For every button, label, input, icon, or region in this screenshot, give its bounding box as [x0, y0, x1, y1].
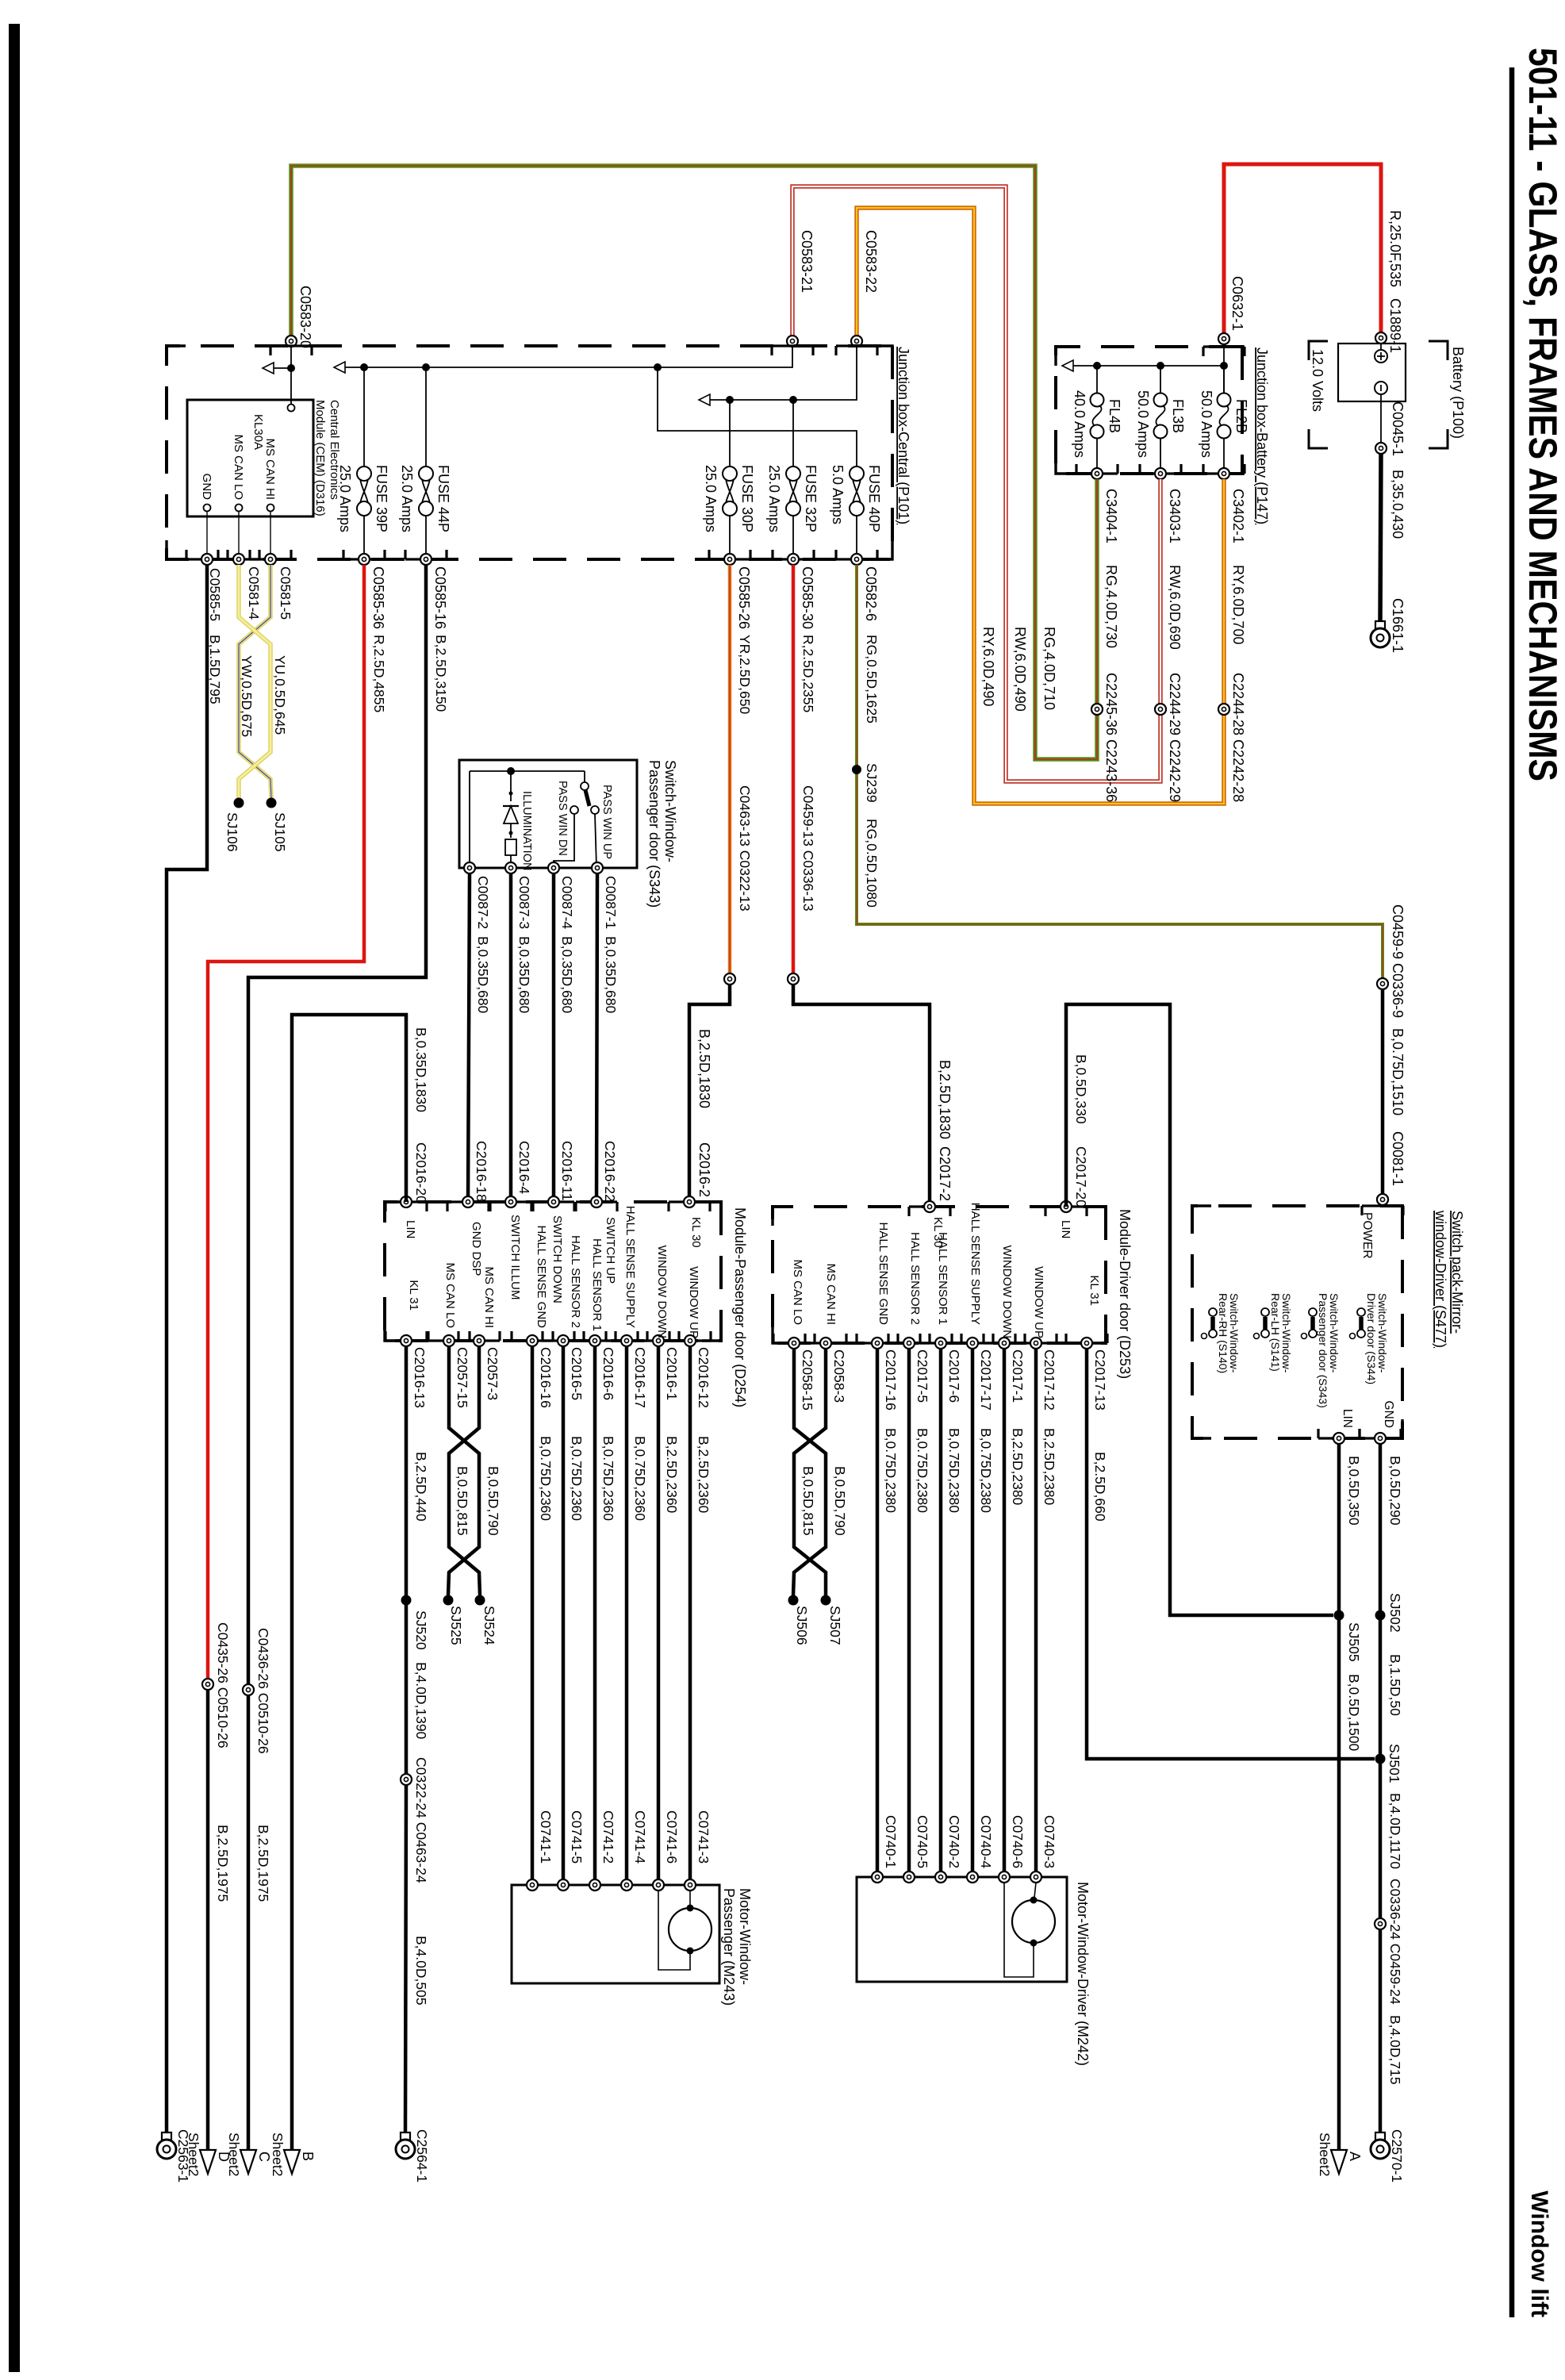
svg-text:501-11 - GLASS, FRAMES AND MEC: 501-11 - GLASS, FRAMES AND MECHANISMS — [1521, 48, 1565, 781]
svg-text:C2016-12: C2016-12 — [696, 1347, 712, 1408]
svg-text:B,2.5D,2380: B,2.5D,2380 — [1041, 1428, 1057, 1506]
svg-text:50.0 Amps: 50.0 Amps — [1135, 390, 1151, 458]
svg-text:C2017-5: C2017-5 — [915, 1349, 930, 1403]
svg-text:WINDOW UP: WINDOW UP — [687, 1266, 700, 1338]
svg-text:C0740-6: C0740-6 — [1010, 1815, 1026, 1868]
svg-text:B,2.5D,660: B,2.5D,660 — [1092, 1452, 1108, 1522]
svg-text:SJ105: SJ105 — [272, 812, 288, 852]
svg-text:C2017-16: C2017-16 — [883, 1349, 899, 1411]
svg-text:FL2B: FL2B — [1233, 399, 1249, 433]
svg-text:C2058-3: C2058-3 — [831, 1349, 847, 1403]
svg-text:C1889-1: C1889-1 — [1387, 298, 1403, 353]
svg-text:C2570-1: C2570-1 — [1389, 2129, 1405, 2182]
svg-text:RW,6.0D,490: RW,6.0D,490 — [1012, 627, 1028, 712]
svg-text:C2016-1: C2016-1 — [664, 1347, 680, 1400]
svg-text:C0463-13 C0322-13: C0463-13 C0322-13 — [737, 785, 753, 912]
svg-text:Rear-RH (S140): Rear-RH (S140) — [1217, 1293, 1229, 1373]
svg-text:FUSE 30P: FUSE 30P — [739, 465, 755, 532]
svg-text:C0045-1: C0045-1 — [1390, 401, 1406, 456]
svg-text:C0740-3: C0740-3 — [1041, 1815, 1057, 1868]
svg-text:GND: GND — [200, 474, 213, 501]
svg-text:PASS WIN DN: PASS WIN DN — [556, 781, 569, 856]
svg-text:C0741-5: C0741-5 — [569, 1810, 585, 1864]
svg-text:RY,6.0D,490: RY,6.0D,490 — [980, 627, 996, 706]
svg-text:Switch-Window-: Switch-Window- — [1228, 1293, 1241, 1373]
svg-text:SJ501: SJ501 — [1387, 1744, 1402, 1783]
svg-text:SJ524: SJ524 — [481, 1606, 497, 1645]
svg-text:B,0.35D,680: B,0.35D,680 — [559, 936, 575, 1014]
svg-text:HALL SENSE GND: HALL SENSE GND — [876, 1223, 890, 1326]
svg-text:C2016-2: C2016-2 — [696, 1142, 712, 1197]
svg-text:SJ505: SJ505 — [1346, 1622, 1362, 1662]
svg-text:RW,6.0D,690: RW,6.0D,690 — [1167, 565, 1183, 650]
svg-text:C3402-1: C3402-1 — [1230, 489, 1246, 543]
svg-text:B,0.35D,1830: B,0.35D,1830 — [413, 1027, 429, 1112]
svg-text:Switch-Window-: Switch-Window- — [1280, 1293, 1293, 1373]
svg-text:Sheet2: Sheet2 — [270, 2132, 286, 2176]
svg-text:C2017-6: C2017-6 — [946, 1349, 962, 1403]
svg-text:B,2.5D,2360: B,2.5D,2360 — [696, 1436, 712, 1514]
svg-text:C2016-17: C2016-17 — [632, 1347, 648, 1408]
svg-text:C2016-11: C2016-11 — [559, 1141, 575, 1201]
svg-text:RG,4.0D,710: RG,4.0D,710 — [1041, 627, 1057, 710]
svg-text:C3404-1: C3404-1 — [1103, 489, 1119, 543]
svg-text:R,25.0F,535: R,25.0F,535 — [1387, 210, 1403, 287]
svg-text:RG,0.5D,1625: RG,0.5D,1625 — [864, 635, 880, 724]
svg-text:B,0.5D,350: B,0.5D,350 — [1346, 1456, 1362, 1526]
svg-text:B,0.35D,680: B,0.35D,680 — [516, 936, 532, 1014]
svg-text:Passenger (M243): Passenger (M243) — [721, 1888, 737, 2006]
svg-text:WINDOW UP: WINDOW UP — [1032, 1266, 1045, 1338]
svg-text:Junction box-Central (P101): Junction box-Central (P101) — [896, 347, 911, 524]
svg-text:B,0.35D,680: B,0.35D,680 — [603, 936, 619, 1014]
svg-text:5.0 Amps: 5.0 Amps — [830, 465, 846, 524]
svg-text:B,2.5D,1975: B,2.5D,1975 — [215, 1825, 231, 1902]
svg-text:C0087-3: C0087-3 — [516, 876, 532, 929]
svg-text:B,0.5D,1500: B,0.5D,1500 — [1346, 1674, 1362, 1752]
svg-text:Module-Passenger door (D254): Module-Passenger door (D254) — [732, 1207, 748, 1407]
svg-text:C2017-17: C2017-17 — [978, 1349, 994, 1411]
svg-text:C2563-1: C2563-1 — [175, 2129, 191, 2182]
svg-text:B,4.0D,1170: B,4.0D,1170 — [1387, 1793, 1403, 1869]
svg-text:C2017-13: C2017-13 — [1092, 1349, 1108, 1411]
svg-text:RG,0.5D,1080: RG,0.5D,1080 — [864, 819, 880, 908]
svg-text:POWER: POWER — [1360, 1212, 1374, 1259]
svg-text:C2017-20: C2017-20 — [1073, 1146, 1089, 1207]
svg-text:B,0.5D,815: B,0.5D,815 — [455, 1466, 470, 1536]
svg-text:C3403-1: C3403-1 — [1167, 489, 1183, 543]
svg-text:SWITCH ILLUM: SWITCH ILLUM — [508, 1215, 522, 1300]
svg-text:SWITCH DOWN: SWITCH DOWN — [550, 1215, 564, 1303]
svg-text:MS CAN LO: MS CAN LO — [791, 1259, 804, 1325]
svg-text:C0740-2: C0740-2 — [946, 1815, 962, 1868]
svg-text:C2016-6: C2016-6 — [600, 1347, 616, 1400]
svg-text:C2057-15: C2057-15 — [455, 1347, 470, 1408]
svg-text:KL 31: KL 31 — [1087, 1275, 1101, 1306]
svg-text:C0459-9 C0336-9: C0459-9 C0336-9 — [1390, 904, 1406, 1018]
svg-text:LIN: LIN — [404, 1220, 417, 1238]
svg-text:C2017-12: C2017-12 — [1041, 1349, 1057, 1411]
svg-text:B,0.75D,2360: B,0.75D,2360 — [538, 1436, 554, 1521]
svg-text:C2244-28 C2242-28: C2244-28 C2242-28 — [1230, 673, 1246, 802]
svg-text:Sheet2: Sheet2 — [1317, 2132, 1333, 2176]
svg-text:C2016-13: C2016-13 — [412, 1347, 428, 1408]
svg-text:LIN: LIN — [1341, 1409, 1354, 1428]
svg-text:Passenger door (S343): Passenger door (S343) — [1317, 1293, 1329, 1408]
svg-text:B,2.5D,2380: B,2.5D,2380 — [1010, 1428, 1026, 1506]
svg-text:PASS WIN UP: PASS WIN UP — [600, 785, 613, 859]
svg-text:B: B — [300, 2152, 316, 2161]
svg-text:B,1.5D,50: B,1.5D,50 — [1387, 1654, 1403, 1716]
svg-text:B,4.0D,1390: B,4.0D,1390 — [413, 1662, 429, 1740]
svg-text:C0585-16: C0585-16 — [432, 566, 448, 629]
svg-text:D: D — [216, 2152, 232, 2162]
svg-text:WINDOW DOWN: WINDOW DOWN — [655, 1246, 669, 1338]
svg-text:FL4B: FL4B — [1107, 399, 1122, 433]
svg-text:HALL SENSOR 1: HALL SENSOR 1 — [936, 1232, 949, 1325]
svg-text:SWITCH UP: SWITCH UP — [604, 1217, 617, 1284]
svg-text:R,2.5D,4855: R,2.5D,4855 — [371, 635, 387, 712]
svg-text:B,0.5D,330: B,0.5D,330 — [1073, 1054, 1089, 1124]
svg-text:C0741-2: C0741-2 — [600, 1810, 616, 1864]
svg-text:Window lift: Window lift — [1526, 2190, 1552, 2317]
svg-text:FUSE 44P: FUSE 44P — [435, 465, 451, 532]
svg-text:SJ525: SJ525 — [448, 1606, 464, 1645]
svg-text:HALL SENSE GND: HALL SENSE GND — [535, 1226, 548, 1329]
svg-text:window-Driver (S477): window-Driver (S477) — [1433, 1210, 1448, 1348]
svg-text:C2016-4: C2016-4 — [516, 1141, 532, 1194]
svg-text:B,0.75D,2380: B,0.75D,2380 — [883, 1428, 899, 1513]
svg-text:SJ506: SJ506 — [794, 1606, 810, 1645]
svg-text:C2057-3: C2057-3 — [485, 1347, 501, 1400]
svg-text:C0585-5: C0585-5 — [207, 568, 223, 621]
svg-text:B,4.0D,715: B,4.0D,715 — [1387, 2015, 1403, 2085]
svg-text:C2016-16: C2016-16 — [538, 1347, 554, 1408]
svg-text:KL 30: KL 30 — [689, 1217, 703, 1248]
svg-text:B,2.5D,3150: B,2.5D,3150 — [433, 635, 449, 712]
svg-text:C0740-4: C0740-4 — [978, 1815, 994, 1868]
svg-text:B,0.5D,790: B,0.5D,790 — [832, 1466, 848, 1536]
svg-text:YW,0.5D,675: YW,0.5D,675 — [239, 655, 255, 737]
svg-text:B,0.5D,815: B,0.5D,815 — [800, 1466, 816, 1536]
svg-text:SJ520: SJ520 — [413, 1610, 429, 1650]
svg-text:R,2.5D,2355: R,2.5D,2355 — [800, 635, 816, 712]
svg-text:C2016-20: C2016-20 — [413, 1142, 429, 1203]
svg-text:ILLUMINATION: ILLUMINATION — [520, 791, 533, 870]
svg-text:C0436-26 C0510-26: C0436-26 C0510-26 — [255, 1628, 271, 1754]
svg-text:C0585-26: C0585-26 — [736, 566, 752, 629]
svg-text:HALL SENSE SUPPLY: HALL SENSE SUPPLY — [623, 1206, 637, 1328]
svg-text:SJ239: SJ239 — [864, 763, 880, 803]
svg-text:B,0.75D,1510: B,0.75D,1510 — [1390, 1028, 1406, 1115]
svg-text:MS CAN HI: MS CAN HI — [482, 1266, 496, 1328]
svg-text:C2564-1: C2564-1 — [414, 2129, 430, 2182]
svg-text:GND DSP: GND DSP — [470, 1222, 483, 1276]
svg-text:C0741-3: C0741-3 — [696, 1810, 712, 1864]
svg-text:Driver door (S344): Driver door (S344) — [1365, 1293, 1378, 1384]
svg-text:C0336-24 C0459-24: C0336-24 C0459-24 — [1387, 1879, 1403, 2005]
svg-text:B,0.75D,2380: B,0.75D,2380 — [915, 1428, 930, 1513]
svg-text:B,2.5D,1830: B,2.5D,1830 — [696, 1029, 712, 1108]
svg-text:C0741-1: C0741-1 — [538, 1810, 554, 1864]
svg-text:MS CAN LO: MS CAN LO — [232, 434, 245, 500]
svg-text:B,0.75D,2360: B,0.75D,2360 — [600, 1436, 616, 1521]
svg-text:C0632-1: C0632-1 — [1229, 276, 1245, 331]
svg-text:C2244-29 C2242-29: C2244-29 C2242-29 — [1167, 673, 1183, 802]
svg-text:Switch-Window-: Switch-Window- — [662, 760, 678, 862]
svg-text:GND: GND — [1382, 1401, 1395, 1428]
svg-text:C0322-24 C0463-24: C0322-24 C0463-24 — [413, 1757, 429, 1883]
svg-text:C0583-21: C0583-21 — [799, 230, 815, 293]
svg-text:Motor-Window-Driver (M242): Motor-Window-Driver (M242) — [1075, 1882, 1091, 2066]
svg-text:Switch pack-Mirror-: Switch pack-Mirror- — [1449, 1211, 1465, 1334]
svg-text:C2016-18: C2016-18 — [474, 1141, 489, 1202]
svg-text:HALL SENSOR 2: HALL SENSOR 2 — [908, 1232, 922, 1325]
svg-text:B,2.5D,440: B,2.5D,440 — [413, 1452, 429, 1522]
svg-text:Module (CEM) (D316): Module (CEM) (D316) — [313, 400, 327, 516]
svg-text:A: A — [1347, 2152, 1363, 2161]
svg-text:C0087-4: C0087-4 — [559, 876, 575, 929]
svg-text:LIN: LIN — [1059, 1220, 1072, 1238]
svg-text:25.0 Amps: 25.0 Amps — [399, 465, 415, 532]
svg-text:C0741-4: C0741-4 — [632, 1810, 648, 1864]
svg-text:RY,6.0D,700: RY,6.0D,700 — [1230, 565, 1246, 644]
svg-text:Rear-LH (S141): Rear-LH (S141) — [1269, 1293, 1282, 1372]
svg-text:Battery (P100): Battery (P100) — [1450, 347, 1466, 439]
svg-text:SJ106: SJ106 — [224, 812, 240, 852]
svg-text:C0582-6: C0582-6 — [863, 566, 879, 621]
svg-text:RG,4.0D,730: RG,4.0D,730 — [1103, 565, 1119, 648]
svg-text:MS CAN HI: MS CAN HI — [824, 1263, 838, 1325]
svg-text:12.0 Volts: 12.0 Volts — [1310, 349, 1325, 412]
svg-text:FL3B: FL3B — [1170, 399, 1186, 433]
svg-text:25.0 Amps: 25.0 Amps — [766, 465, 782, 532]
svg-text:SJ502: SJ502 — [1387, 1593, 1403, 1633]
svg-text:C0741-6: C0741-6 — [664, 1810, 680, 1864]
svg-text:Junction box-Battery (P147): Junction box-Battery (P147) — [1254, 347, 1270, 524]
svg-text:C2016-22: C2016-22 — [602, 1141, 618, 1202]
svg-text:HALL SENSOR 2: HALL SENSOR 2 — [569, 1235, 582, 1328]
svg-text:C0583-22: C0583-22 — [863, 230, 879, 293]
svg-text:C1661-1: C1661-1 — [1390, 598, 1406, 653]
svg-text:MS CAN LO: MS CAN LO — [443, 1262, 457, 1328]
svg-text:Switch-Window-: Switch-Window- — [1376, 1293, 1389, 1373]
svg-text:B,0.35D,680: B,0.35D,680 — [475, 936, 491, 1014]
svg-text:C0583-20: C0583-20 — [297, 286, 313, 348]
svg-text:C0740-5: C0740-5 — [915, 1815, 930, 1868]
svg-text:C0581-4: C0581-4 — [246, 566, 262, 620]
svg-text:FUSE 32P: FUSE 32P — [803, 465, 819, 532]
svg-text:KL 31: KL 31 — [407, 1280, 420, 1311]
svg-text:Motor-Window-: Motor-Window- — [737, 1888, 753, 1985]
svg-text:C2058-15: C2058-15 — [800, 1349, 815, 1411]
svg-text:40.0 Amps: 40.0 Amps — [1072, 390, 1087, 458]
svg-text:C0087-2: C0087-2 — [475, 876, 491, 929]
svg-text:B,1.5D,795: B,1.5D,795 — [207, 635, 223, 704]
svg-text:B,0.75D,2380: B,0.75D,2380 — [978, 1428, 994, 1513]
svg-text:C2017-1: C2017-1 — [1010, 1349, 1026, 1403]
svg-text:Switch-Window-: Switch-Window- — [1328, 1293, 1341, 1373]
svg-text:B,2.5D,1975: B,2.5D,1975 — [255, 1825, 271, 1902]
svg-text:C2016-5: C2016-5 — [569, 1347, 585, 1400]
svg-text:C0081-1: C0081-1 — [1390, 1131, 1406, 1186]
svg-text:WINDOW DOWN: WINDOW DOWN — [1000, 1246, 1014, 1338]
svg-text:C2245-36 C2243-36: C2245-36 C2243-36 — [1103, 673, 1119, 802]
svg-text:C0585-30: C0585-30 — [800, 566, 815, 629]
svg-text:Central Electronics: Central Electronics — [328, 400, 341, 500]
svg-text:B,0.5D,790: B,0.5D,790 — [485, 1466, 501, 1536]
svg-text:Passenger door (S343): Passenger door (S343) — [646, 760, 662, 908]
svg-text:B,0.75D,2360: B,0.75D,2360 — [569, 1436, 585, 1521]
svg-text:25.0 Amps: 25.0 Amps — [703, 465, 719, 532]
svg-text:MS CAN HI: MS CAN HI — [263, 438, 277, 500]
svg-text:YR,2.5D,650: YR,2.5D,650 — [737, 635, 753, 714]
svg-text:B,0.5D,290: B,0.5D,290 — [1387, 1456, 1403, 1526]
svg-text:C0581-5: C0581-5 — [278, 566, 293, 620]
svg-text:YU,0.5D,645: YU,0.5D,645 — [272, 655, 288, 735]
svg-text:C0459-13 C0336-13: C0459-13 C0336-13 — [800, 785, 816, 912]
svg-text:B,0.75D,2380: B,0.75D,2380 — [946, 1428, 962, 1513]
svg-text:B,0.75D,2360: B,0.75D,2360 — [632, 1436, 648, 1521]
svg-text:50.0 Amps: 50.0 Amps — [1199, 390, 1214, 458]
svg-text:B,35.0,430: B,35.0,430 — [1390, 470, 1406, 539]
svg-text:B,2.5D,2360: B,2.5D,2360 — [664, 1436, 680, 1514]
svg-text:C0585-36: C0585-36 — [370, 566, 386, 629]
svg-text:C0435-26 C0510-26: C0435-26 C0510-26 — [215, 1622, 231, 1749]
svg-text:HALL SENSOR 1: HALL SENSOR 1 — [590, 1238, 604, 1331]
svg-text:HALL SENSE SUPPLY: HALL SENSE SUPPLY — [969, 1203, 982, 1325]
svg-text:C0740-1: C0740-1 — [883, 1815, 899, 1868]
svg-text:C0087-1: C0087-1 — [603, 876, 619, 929]
svg-text:B,2.5D,1830: B,2.5D,1830 — [937, 1060, 953, 1139]
svg-text:FUSE 40P: FUSE 40P — [866, 465, 882, 532]
svg-text:Module-Driver door (D253): Module-Driver door (D253) — [1117, 1209, 1133, 1379]
svg-text:FUSE 39P: FUSE 39P — [374, 465, 389, 532]
svg-text:C2017-2: C2017-2 — [937, 1146, 953, 1201]
svg-text:SJ507: SJ507 — [827, 1606, 843, 1645]
svg-text:B,4.0D,505: B,4.0D,505 — [413, 1936, 429, 2006]
